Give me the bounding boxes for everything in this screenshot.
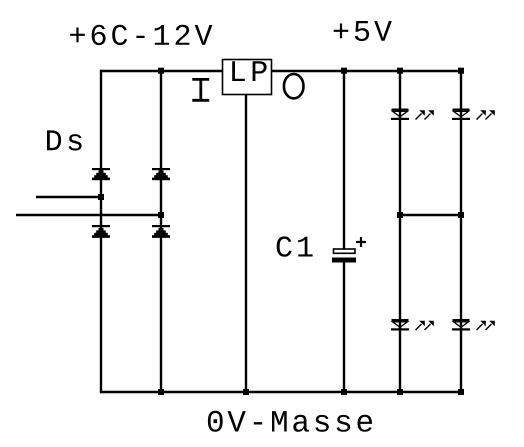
node ground rail at LED column B [458, 389, 464, 395]
node top rail at C1 [341, 68, 347, 74]
label 0V-Masse (ground net) [208, 411, 372, 432]
wire C1 bottom lead [343, 262, 345, 393]
node mid tie at LED column B [458, 212, 464, 218]
LED L2 top of column B [452, 109, 495, 121]
diode D4 lower right (bridge) [152, 225, 170, 238]
wire regulator middle pin vertical [245, 94, 247, 393]
regulator U1 box LP [223, 60, 272, 95]
wire LED column A vertical [399, 71, 401, 393]
wire AC input 2 [16, 214, 161, 216]
wire bridge column 1 vertical [100, 70, 102, 393]
wire AC input 1 [36, 196, 101, 198]
node AC2 to column 2 [158, 212, 164, 218]
node ground rail at regulator pin [243, 389, 249, 395]
LED L3 bottom of column A [391, 319, 434, 331]
diode D2 upper right (bridge) [152, 168, 170, 180]
capacitor C1 (electrolytic) [332, 237, 366, 263]
label Ds (diode group) [47, 130, 82, 150]
pin label O (output) [284, 74, 304, 98]
wire bridge column 2 vertical [160, 71, 162, 393]
node top rail at LED column B [458, 68, 464, 74]
wire bottom ground rail [100, 391, 462, 393]
LED L1 top of column A [391, 109, 434, 121]
wire LED column B vertical [460, 71, 462, 393]
pin label I (input) [192, 79, 209, 100]
node top rail at column 2 [158, 68, 164, 74]
diode D3 lower left (bridge) [92, 225, 110, 238]
label C1 value [277, 236, 313, 256]
diode D1 upper left (bridge) [92, 168, 110, 180]
node ground rail at C1 [341, 389, 347, 395]
node AC1 to column 1 [98, 194, 104, 200]
node ground rail at LED column A [397, 389, 403, 395]
wire C1 top lead [343, 71, 345, 249]
wire LED mid tie rail [400, 214, 461, 216]
wire top rail left segment [100, 70, 223, 72]
label +5V (supply net) [334, 21, 392, 41]
node ground rail at column 2 [158, 389, 164, 395]
wire top rail right segment [271, 70, 462, 72]
LED L4 bottom of column B [452, 319, 495, 331]
node mid tie at LED column A [397, 212, 403, 218]
label +6C-12V (supply net) [70, 25, 212, 45]
node top rail at LED column A [397, 68, 403, 74]
